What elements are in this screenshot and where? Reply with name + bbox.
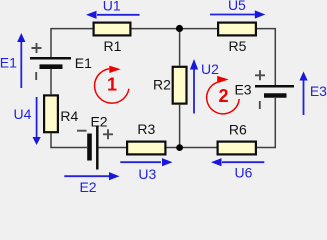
wire bottom rail right (R6 to corner) (257, 147, 276, 149)
svg-text:U1: U1 (103, 0, 121, 13)
svg-text:U2: U2 (201, 61, 219, 77)
battery E1 plate + (long thin) (30, 57, 71, 60)
battery E1 minus mark (rotated dash) (35, 72, 37, 80)
battery E3 plate + (long thin) (255, 85, 294, 88)
svg-text:U4: U4 (14, 106, 32, 122)
battery E2 plate - (short thick) (87, 134, 92, 161)
resistor R1 (94, 23, 131, 36)
svg-text:U5: U5 (228, 0, 246, 13)
wire bottom rail left (corner to E2) (50, 147, 87, 149)
svg-text:R6: R6 (229, 121, 247, 137)
resistor R4 (44, 95, 58, 132)
resistor R3 (127, 142, 165, 155)
battery E3 minus mark (rotated dash) (259, 101, 261, 109)
wire left rail middle (E1 to R4) (50, 69, 52, 94)
wire top rail right segment (257, 28, 275, 30)
battery E3 plus mark (255, 70, 265, 80)
svg-text:2: 2 (218, 86, 228, 106)
voltage arrow U2 (up) (193, 69, 195, 114)
battery E1 plate - (short thick) (40, 64, 63, 69)
voltage arrow U6 (left) (222, 161, 264, 163)
resistor R2 (173, 67, 187, 104)
emf arrow E3 (up, far right) (303, 80, 305, 115)
svg-text:E3: E3 (310, 83, 327, 99)
wire left rail upper (corner to E1) (50, 28, 52, 57)
battery E1 plus mark (32, 43, 42, 53)
wire middle branch lower (R2 to node B) (179, 105, 181, 148)
svg-text:R5: R5 (229, 38, 247, 54)
battery E3 plate - (short thick) (264, 93, 287, 98)
wire left rail lower (R4 to corner) (50, 133, 52, 148)
svg-text:E2: E2 (90, 113, 107, 129)
svg-text:1: 1 (107, 75, 117, 95)
battery E2 plate + (long thin) (96, 126, 99, 170)
resistor R6 (218, 142, 256, 155)
voltage arrow U4 (down) (36, 97, 38, 138)
mesh loop 1 arrow (95, 69, 129, 103)
node A junction dot (176, 25, 183, 32)
svg-text:E3: E3 (234, 82, 251, 98)
voltage arrow U1 (left) (97, 14, 140, 16)
mesh loop 2 arrow (207, 82, 240, 114)
wire right rail upper (corner to E3) (274, 28, 276, 85)
emf arrow E1 (up, far left) (20, 42, 22, 89)
wire bottom rail (E2 to R3) (99, 147, 127, 149)
node B junction dot (176, 144, 183, 151)
wire top rail middle segment (132, 28, 218, 30)
svg-text:R4: R4 (60, 108, 78, 124)
svg-text:E1: E1 (0, 55, 17, 71)
wire bottom rail (R3 to R6 through node) (167, 147, 217, 149)
voltage arrow U3 (right) (120, 161, 161, 163)
svg-text:U3: U3 (138, 166, 156, 182)
battery E2 plus mark (103, 129, 113, 139)
svg-text:E1: E1 (75, 55, 92, 71)
svg-text:U6: U6 (235, 165, 253, 181)
wire top rail left segment (51, 28, 93, 30)
battery E2 minus mark (77, 130, 87, 132)
wire right rail lower (E3 to corner) (274, 98, 276, 148)
voltage arrow U5 (right) (210, 14, 255, 16)
wire middle branch upper (node A to R2) (179, 29, 181, 66)
svg-text:R1: R1 (104, 38, 122, 54)
svg-text:R3: R3 (137, 121, 155, 137)
resistor R5 (218, 23, 256, 36)
svg-text:R2: R2 (153, 76, 171, 92)
svg-text:E2: E2 (79, 179, 96, 192)
emf arrow E2 (right, bottom) (64, 175, 109, 177)
